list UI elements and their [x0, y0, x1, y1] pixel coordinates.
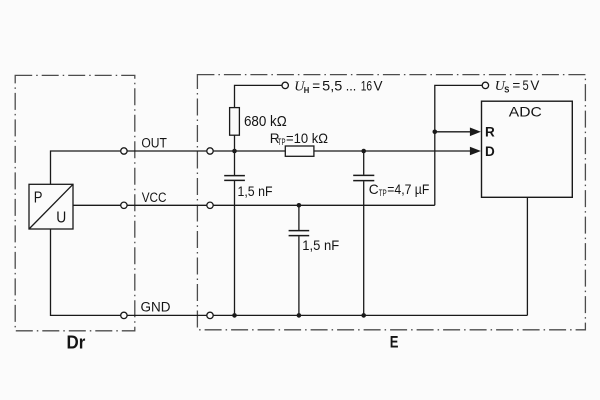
- svg-text:Dr: Dr: [67, 332, 86, 352]
- resistor 680 kOhm: [230, 108, 240, 136]
- svg-text:TP: TP: [278, 137, 286, 147]
- svg-text:H: H: [304, 85, 310, 95]
- svg-text:TP: TP: [379, 188, 387, 198]
- wire UH branch: riser and feed: [235, 85, 283, 107]
- terminal OUT (Dr side): [121, 148, 127, 154]
- capacitor C2 lower lead to GND: [298, 236, 300, 315]
- svg-text:1,5 nF: 1,5 nF: [238, 183, 273, 199]
- wire OUT: sensor to Dr terminal: [51, 151, 121, 184]
- wire GND riser to ADC bottom: [526, 197, 528, 315]
- svg-text:D: D: [485, 144, 495, 159]
- wire VCC: E terminal to US riser: [213, 204, 435, 206]
- terminal UH: [282, 82, 288, 88]
- wire D: resistor RTP to ADC: [314, 150, 471, 152]
- wire US riser from VCC: [435, 85, 482, 205]
- svg-text:S: S: [504, 84, 509, 94]
- capacitor C1 lower lead to GND: [234, 181, 236, 315]
- wire 680k resistor to OUT node: [234, 135, 236, 151]
- svg-text:5: 5: [523, 78, 529, 93]
- svg-text:P: P: [34, 190, 43, 207]
- terminal GND (Dr side): [121, 312, 127, 318]
- svg-text:...: ...: [346, 79, 357, 94]
- capacitor C1 1,5 nF plates: [224, 176, 245, 181]
- capacitor CTP plates: [353, 175, 374, 180]
- svg-text:VCC: VCC: [142, 190, 167, 205]
- svg-text:680 kΩ: 680 kΩ: [244, 114, 287, 130]
- svg-text:GND: GND: [141, 299, 171, 314]
- svg-text:OUT: OUT: [141, 136, 167, 151]
- junction dot R tap: [433, 130, 438, 135]
- junction dot C2/GND node: [297, 313, 302, 318]
- svg-text:16: 16: [361, 79, 372, 94]
- wire R: US riser to ADC pin R: [435, 131, 471, 133]
- wire OUT: E terminal to resistor RTP: [213, 150, 285, 152]
- svg-text:ADC: ADC: [509, 104, 542, 120]
- svg-text:U: U: [56, 210, 66, 227]
- wire VCC: sensor to Dr terminal: [73, 204, 121, 206]
- svg-text:V: V: [530, 78, 539, 93]
- ADC box: [482, 101, 573, 197]
- svg-text:R: R: [485, 125, 495, 140]
- wire GND: E terminal to ADC riser: [213, 314, 527, 316]
- wire GND: Dr terminal to E terminal: [127, 314, 207, 316]
- svg-text:=: =: [512, 78, 520, 93]
- capacitor C2 1,5 nF plates: [289, 231, 310, 236]
- junction dot C2/VCC node: [297, 203, 302, 208]
- arrowhead into ADC pin D: [470, 147, 481, 156]
- capacitor CTP upper lead: [363, 151, 365, 175]
- wire GND: sensor to Dr terminal: [51, 229, 121, 315]
- svg-text:=10 kΩ: =10 kΩ: [286, 131, 328, 146]
- svg-text:=4,7 µF: =4,7 µF: [387, 182, 429, 197]
- E ECU boundary box (dash-dot): [197, 75, 585, 330]
- svg-text:5,5: 5,5: [322, 79, 342, 94]
- wire OUT: Dr terminal to E terminal: [127, 150, 207, 152]
- svg-text:1,5 nF: 1,5 nF: [302, 237, 339, 253]
- Dr sensor boundary box (dash-dot): [15, 75, 135, 330]
- junction dot CTP/GND node: [361, 313, 366, 318]
- sensor U1 box (P/U transducer): [29, 184, 73, 229]
- capacitor C1 upper lead: [234, 151, 236, 175]
- svg-text:C: C: [369, 182, 379, 197]
- terminal VCC (Dr side): [121, 202, 127, 208]
- terminal OUT (E side): [207, 148, 213, 154]
- svg-text:=: =: [312, 79, 320, 94]
- capacitor CTP lower lead to GND: [363, 181, 365, 315]
- svg-text:E: E: [390, 333, 399, 352]
- wire VCC: Dr terminal to E terminal: [127, 204, 207, 206]
- capacitor C2 upper lead: [298, 205, 300, 230]
- svg-text:V: V: [374, 79, 383, 94]
- resistor RTP 10 kOhm: [285, 146, 314, 156]
- junction dot C1/GND node: [232, 313, 237, 318]
- arrowhead into ADC pin R: [470, 128, 481, 137]
- terminal VCC (E side): [207, 202, 213, 208]
- junction dot CTP/OUT node: [361, 149, 366, 154]
- terminal GND (E side): [207, 312, 213, 318]
- junction dot 680k/OUT node: [232, 149, 237, 154]
- terminal US: [482, 82, 488, 88]
